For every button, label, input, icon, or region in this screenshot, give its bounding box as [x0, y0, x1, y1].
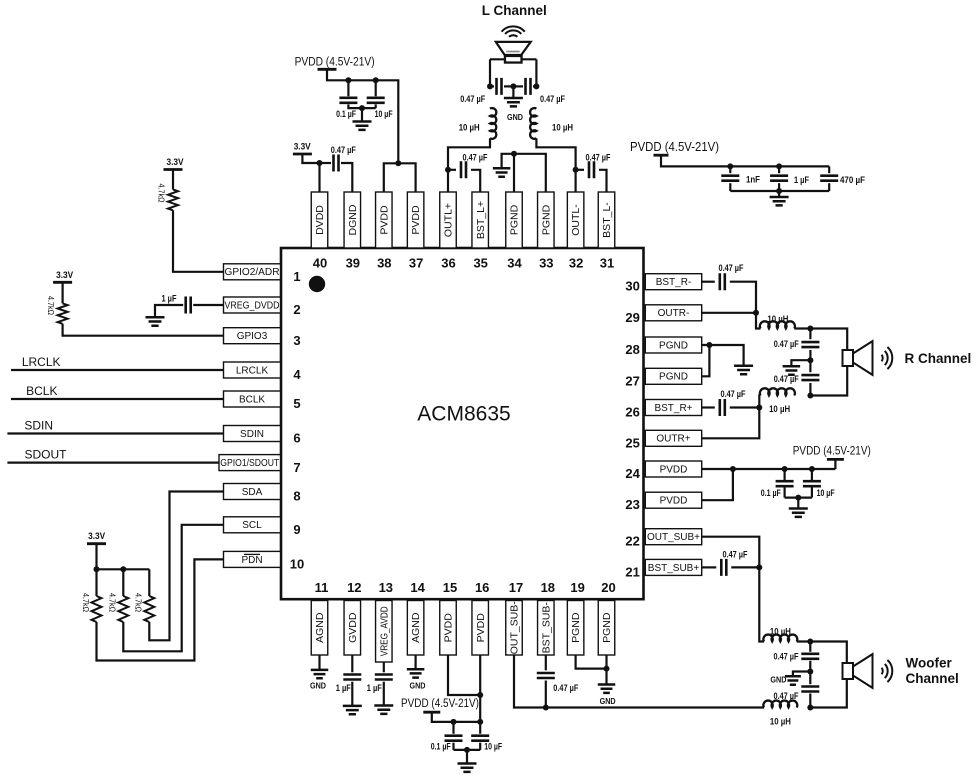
- pin 3 box GPIO3: [224, 328, 281, 344]
- svg-text:22: 22: [625, 534, 639, 549]
- svg-text:10 µH: 10 µH: [770, 717, 791, 727]
- svg-text:4.7kΩ: 4.7kΩ: [108, 593, 118, 612]
- power symbol PVDD top-left: [318, 68, 337, 71]
- svg-text:AGND: AGND: [314, 612, 326, 643]
- wire cap to ground: [383, 682, 385, 706]
- svg-text:10 µH: 10 µH: [552, 123, 573, 133]
- cap join wire: [785, 497, 812, 499]
- svg-text:0.47 µF: 0.47 µF: [774, 691, 799, 701]
- pin 10 box PDN: [224, 551, 281, 567]
- pin 26 box BST_R+: [645, 400, 701, 416]
- svg-text:GPIO2/ADR: GPIO2/ADR: [225, 267, 280, 278]
- svg-text:1: 1: [293, 269, 300, 284]
- junction dot: [345, 77, 351, 83]
- capacitor 0.47uF DVDD-DGND: [334, 155, 339, 172]
- power symbol 3.3V (GPIO3 pull-up): [53, 281, 72, 284]
- svg-text:0.47 µF: 0.47 µF: [331, 145, 356, 155]
- inductor 10uH woofer top: [763, 635, 797, 642]
- svg-text:GPIO3: GPIO3: [237, 331, 268, 342]
- resistor 4.7k (SCL pull-up) leads: [122, 569, 124, 596]
- svg-text:LRCLK: LRCLK: [236, 365, 269, 376]
- wire PVDD bar to rail: [327, 69, 398, 163]
- pin 21 box BST_SUB+: [645, 559, 701, 575]
- svg-text:3: 3: [293, 333, 300, 348]
- pin 30 box BST_R-: [645, 274, 701, 290]
- junction dot: [373, 77, 379, 83]
- wire cap to OUTR- node: [730, 282, 756, 313]
- capacitor 0.47uF L left: [490, 85, 494, 87]
- capacitor 0.47uF R filter top leads: [809, 329, 811, 340]
- wire pin37 PVDD to node: [398, 163, 415, 192]
- wire PVDD bar stem: [834, 459, 836, 469]
- wire cap to pin39 DGND: [341, 163, 352, 192]
- wire pin21 BST_SUB+ to cap: [702, 566, 717, 568]
- svg-text:12: 12: [347, 580, 361, 595]
- svg-text:DVDD: DVDD: [314, 205, 326, 235]
- svg-text:0.47 µF: 0.47 µF: [586, 153, 611, 163]
- svg-text:Woofer: Woofer: [906, 655, 953, 670]
- pin 40 box DVDD: [311, 192, 328, 248]
- svg-text:SCL: SCL: [242, 520, 262, 531]
- power symbol 3.3V (GPIO2 pull-up): [164, 168, 183, 171]
- svg-text:BCLK: BCLK: [26, 384, 57, 398]
- junction dot: [776, 188, 782, 194]
- pin 19 box PGND: [567, 601, 584, 656]
- power symbol PVDD bottom: [423, 711, 440, 714]
- bulk cap bottom rail: [730, 190, 829, 192]
- pin 28 box PGND: [645, 337, 701, 353]
- svg-text:1 µF: 1 µF: [794, 175, 809, 185]
- ground (top-left PVDD caps): [353, 122, 372, 130]
- svg-text:1nF: 1nF: [746, 175, 760, 185]
- wire to ground: [466, 750, 468, 763]
- ground (PGND pins 19-20): [598, 685, 616, 693]
- ground (VREG_DVDD cap): [146, 317, 165, 325]
- capacitor 470uF leads: [828, 166, 830, 173]
- pin 8 box SDA: [224, 484, 281, 500]
- resistor 4.7k pull-up GPIO3: [58, 303, 68, 323]
- junction dot ground node: [359, 105, 365, 111]
- svg-text:PVDD (4.5V-21V): PVDD (4.5V-21V): [295, 57, 375, 69]
- pin 38 box PVDD: [376, 192, 393, 248]
- wire node to speaker minus: [810, 366, 847, 396]
- svg-text:23: 23: [625, 497, 639, 512]
- svg-text:GVDD: GVDD: [347, 612, 359, 643]
- wire pin38 PVDD to node: [384, 163, 399, 192]
- svg-text:PGND: PGND: [659, 340, 688, 351]
- wire SCL pull-up to pin9: [123, 525, 223, 652]
- wire node down to woofer filter: [759, 567, 764, 641]
- pin 31 box BST_L-: [598, 192, 615, 248]
- wire resistor to 3.3V bar: [61, 282, 63, 303]
- junction dot PGND: [511, 151, 517, 157]
- svg-text:38: 38: [377, 255, 391, 270]
- svg-text:3.3V: 3.3V: [294, 142, 312, 153]
- pin 34 box PGND: [506, 192, 523, 248]
- svg-text:SDOUT: SDOUT: [25, 448, 68, 462]
- svg-text:10 µH: 10 µH: [770, 627, 791, 637]
- wire to ground: [361, 108, 363, 121]
- junction dot: [604, 666, 610, 672]
- capacitor 1uF GVDD: [343, 675, 361, 680]
- svg-text:25: 25: [625, 435, 639, 450]
- wire mid node to ground: [793, 672, 810, 677]
- wire pin3 GPIO3 to pull-up resistor: [63, 324, 224, 336]
- inductor 10uH R bottom: [760, 388, 795, 395]
- wire LRCLK to pin4: [11, 369, 224, 371]
- junction dot BST_SUB- cap: [543, 705, 549, 711]
- svg-text:GND: GND: [410, 681, 426, 691]
- svg-text:13: 13: [379, 580, 393, 595]
- svg-text:L Channel: L Channel: [482, 3, 547, 18]
- svg-text:32: 32: [569, 255, 583, 270]
- junction dot: [120, 566, 126, 572]
- svg-text:0.47 µF: 0.47 µF: [774, 652, 799, 662]
- wire pin16 PVDD down to rail: [479, 655, 481, 722]
- svg-text:10 µH: 10 µH: [769, 404, 790, 414]
- svg-text:26: 26: [625, 405, 639, 420]
- capacitor 0.1uF (bottom PVDD) leads: [452, 722, 454, 734]
- pin 29 box OUTR-: [645, 305, 701, 321]
- wire SDA pull-up to pin8: [149, 492, 223, 641]
- cap join wire: [454, 749, 481, 751]
- junction dot woofer mid: [807, 669, 813, 675]
- svg-text:Channel: Channel: [906, 671, 959, 686]
- svg-text:BST_R-: BST_R-: [656, 277, 692, 288]
- svg-text:PGND: PGND: [659, 372, 688, 383]
- pin 6 box SDIN: [224, 426, 281, 442]
- pin-1 marker dot: [309, 276, 325, 292]
- svg-text:PVDD (4.5V-21V): PVDD (4.5V-21V): [630, 140, 719, 154]
- svg-text:16: 16: [475, 580, 489, 595]
- wire cap to rail: [545, 681, 547, 708]
- svg-text:BCLK: BCLK: [239, 394, 265, 405]
- capacitor 0.47uF woofer filter bottom leads: [809, 672, 811, 685]
- svg-text:10: 10: [290, 557, 304, 572]
- svg-text:0.47 µF: 0.47 µF: [540, 94, 565, 104]
- capacitor 10uF (right PVDD) leads: [811, 469, 813, 480]
- svg-text:37: 37: [409, 255, 423, 270]
- svg-text:3.3V: 3.3V: [167, 157, 185, 168]
- junction dot: [727, 163, 733, 169]
- svg-text:4: 4: [293, 367, 301, 382]
- wire to ground: [797, 498, 799, 509]
- capacitor 0.47uF R filter bottom leads: [809, 360, 811, 372]
- wire 3.3V to pin40 DVDD: [302, 154, 319, 192]
- junction dot left: [487, 83, 493, 89]
- pin 39 box DGND: [344, 192, 361, 248]
- svg-text:10 µF: 10 µF: [375, 109, 393, 119]
- svg-text:10 µF: 10 µF: [484, 742, 502, 752]
- svg-text:PVDD (4.5V-21V): PVDD (4.5V-21V): [793, 445, 871, 457]
- wire node to decoupling cap: [320, 162, 332, 164]
- svg-text:31: 31: [600, 255, 614, 270]
- svg-text:10 µH: 10 µH: [767, 314, 788, 324]
- wire to ground: [778, 191, 780, 197]
- svg-text:PDN: PDN: [241, 555, 262, 566]
- svg-text:AGND: AGND: [410, 612, 422, 643]
- pin 37 box PVDD: [407, 192, 424, 248]
- wire speaker right to cap node: [535, 59, 537, 86]
- svg-text:PGND: PGND: [570, 612, 582, 643]
- svg-text:SDIN: SDIN: [240, 429, 264, 440]
- wire pin12 GVDD to cap: [351, 655, 353, 672]
- svg-text:OUT_SUB+: OUT_SUB+: [647, 532, 700, 543]
- capacitor 10uF (PVDD decoupling) top lead: [375, 80, 377, 96]
- inductor 10uH L left: [490, 108, 496, 139]
- svg-text:PVDD: PVDD: [443, 613, 455, 643]
- wire speaker left to cap node: [489, 59, 491, 86]
- wire R- inductor to OUTL- node: [536, 138, 575, 170]
- svg-text:BST_SUB+: BST_SUB+: [648, 563, 700, 574]
- junction dot: [795, 495, 801, 501]
- svg-text:SDA: SDA: [242, 487, 263, 498]
- ground (R filter): [783, 366, 801, 374]
- wire pin19 PGND to pin20 line: [576, 655, 607, 669]
- svg-text:9: 9: [293, 522, 300, 537]
- svg-text:DGND: DGND: [347, 204, 359, 235]
- junction dot BST_R+: [756, 405, 762, 411]
- wire PVDD to bulk cap rail: [661, 155, 829, 166]
- svg-text:28: 28: [625, 342, 639, 357]
- svg-text:470 µF: 470 µF: [840, 175, 865, 185]
- wire cap to node: [731, 566, 759, 568]
- svg-text:PVDD: PVDD: [475, 613, 487, 643]
- junction dot: [782, 466, 788, 472]
- svg-text:10 µH: 10 µH: [459, 123, 480, 133]
- svg-text:VREG_AVDD: VREG_AVDD: [378, 606, 390, 656]
- capacitor 0.1uF (PVDD decoupling) top lead: [347, 80, 349, 96]
- junction dot R speaker +: [807, 326, 813, 332]
- wire center node to ground: [512, 86, 514, 98]
- junction dot PVDD pins node: [395, 160, 401, 166]
- svg-text:36: 36: [441, 255, 455, 270]
- svg-text:0.1 µF: 0.1 µF: [336, 109, 356, 119]
- svg-text:27: 27: [625, 373, 639, 388]
- ground (woofer filter): [785, 676, 801, 684]
- svg-text:4.7kΩ: 4.7kΩ: [46, 296, 56, 315]
- capacitor 0.47uF bootstrap L+: [448, 169, 456, 171]
- wire cap to node: [730, 406, 760, 408]
- capacitor 0.47uF woofer filter top leads: [809, 642, 811, 652]
- inductor 10uH L right: [530, 108, 536, 139]
- junction dot R filter mid: [807, 357, 813, 363]
- ground (PGND top): [493, 168, 511, 176]
- wire pin18 BST_SUB- to cap: [545, 655, 547, 670]
- svg-text:OUTL-: OUTL-: [570, 204, 582, 236]
- junction dot SUB+: [756, 564, 762, 570]
- svg-text:PVDD (4.5V-21V): PVDD (4.5V-21V): [401, 698, 479, 710]
- wire PDN pull-up to pin10: [97, 559, 224, 660]
- svg-text:10 µF: 10 µF: [817, 488, 835, 498]
- svg-text:OUTR-: OUTR-: [658, 308, 690, 319]
- wire pin27 PGND to node: [702, 345, 710, 376]
- pin 11 box AGND: [311, 601, 328, 656]
- svg-text:VREG_DVDD: VREG_DVDD: [225, 300, 280, 311]
- capacitor 0.1uF bottom lead: [348, 104, 375, 108]
- wire pin1 GPIO2/ADR to pull-up resistor: [173, 210, 224, 271]
- svg-text:GND: GND: [310, 681, 326, 691]
- speaker R channel: [843, 350, 854, 366]
- junction dot node DVDD: [317, 160, 323, 166]
- junction dot right: [533, 83, 539, 89]
- capacitor 10uF bottom lead: [375, 104, 377, 108]
- pull-up rail: [97, 568, 150, 570]
- wire pin23 PVDD to rail: [702, 469, 733, 500]
- svg-text:4.7kΩ: 4.7kΩ: [81, 593, 91, 612]
- junction dot woofer +: [807, 639, 813, 645]
- junction dot woofer -: [807, 705, 813, 711]
- junction dot: [94, 566, 100, 572]
- inductor 10uH R top: [760, 321, 795, 328]
- wire dot to pin34 PGND: [513, 154, 515, 192]
- pin 20 box PGND: [598, 601, 615, 656]
- wire speaker loop top: [490, 58, 536, 60]
- svg-text:0.47 µF: 0.47 µF: [553, 683, 578, 693]
- wire OUT_SUB- rail to woofer bottom inductor: [514, 655, 764, 708]
- capacitor 1nF leads: [729, 166, 731, 173]
- svg-text:5: 5: [293, 396, 300, 411]
- pin 2 box VREG_DVDD: [224, 297, 281, 313]
- resistor 4.7k pull-up GPIO2/ADR: [168, 190, 178, 211]
- pin 5 box BCLK: [224, 391, 281, 407]
- junction dot: [477, 719, 483, 725]
- svg-text:PVDD: PVDD: [660, 496, 688, 507]
- pin 16 box PVDD: [472, 601, 489, 656]
- svg-text:20: 20: [601, 580, 615, 595]
- power symbol PVDD top-right: [654, 154, 669, 157]
- capacitor 10uF (bottom PVDD) leads: [479, 722, 481, 734]
- ground (AGND pin14): [407, 669, 425, 677]
- svg-text:33: 33: [539, 255, 553, 270]
- wire node down to filter: [756, 313, 761, 329]
- ground (L channel filter): [504, 98, 523, 106]
- junction dot: [477, 692, 483, 698]
- junction dot OUTL+: [445, 167, 451, 173]
- svg-text:R Channel: R Channel: [905, 351, 972, 366]
- junction dot: [776, 163, 782, 169]
- pin 35 box BST_L+: [472, 192, 489, 248]
- svg-text:6: 6: [293, 431, 300, 446]
- svg-text:19: 19: [570, 580, 584, 595]
- pin 33 box PGND: [538, 192, 555, 248]
- power symbol 3.3V (DVDD): [293, 153, 312, 156]
- svg-text:OUTL+: OUTL+: [443, 203, 455, 237]
- svg-text:40: 40: [313, 255, 327, 270]
- svg-text:0.47 µF: 0.47 µF: [774, 339, 799, 349]
- wire pin11 AGND to ground: [318, 655, 320, 670]
- resistor 4.7k (SDA pull-up) leads: [148, 569, 150, 596]
- svg-text:3.3V: 3.3V: [88, 531, 106, 542]
- svg-text:PGND: PGND: [540, 204, 552, 235]
- wire resistor to 3.3V bar: [172, 170, 174, 190]
- pin 14 box AGND: [407, 601, 424, 656]
- svg-text:0.47 µF: 0.47 µF: [719, 263, 744, 273]
- svg-text:2: 2: [293, 302, 300, 317]
- wire pin20 PGND to ground: [605, 655, 607, 684]
- svg-text:1 µF: 1 µF: [162, 294, 177, 304]
- svg-text:GPIO1/SDOUT: GPIO1/SDOUT: [220, 458, 279, 469]
- svg-text:0.47 µF: 0.47 µF: [721, 389, 746, 399]
- IC U1 ACM8635 body: [281, 248, 644, 599]
- svg-text:PVDD: PVDD: [378, 205, 390, 235]
- svg-text:30: 30: [625, 279, 639, 294]
- svg-text:0.47 µF: 0.47 µF: [774, 374, 799, 384]
- ground (right PVDD caps): [789, 509, 808, 517]
- svg-text:11: 11: [315, 580, 329, 595]
- svg-text:0.1 µF: 0.1 µF: [431, 742, 451, 752]
- junction dot OUTL-: [573, 167, 579, 173]
- speaker Woofer channel: [843, 663, 854, 679]
- pin 15 box PVDD: [440, 601, 457, 656]
- wire pin28 PGND: [702, 345, 744, 366]
- wire PGND pins to ground: [502, 154, 546, 192]
- svg-text:1 µF: 1 µF: [336, 683, 351, 693]
- wire BCLK to pin5: [11, 398, 224, 400]
- wire pin15 PVDD to pin16 line: [448, 655, 480, 695]
- svg-text:PVDD: PVDD: [410, 205, 422, 235]
- ground (R PGND): [734, 366, 753, 374]
- capacitor 1uF leads: [778, 166, 780, 173]
- ground (GVDD cap): [343, 706, 362, 714]
- svg-text:7: 7: [293, 460, 300, 475]
- svg-text:OUTR+: OUTR+: [656, 434, 690, 445]
- pin 23 box PVDD: [645, 492, 701, 508]
- wire PVDD bar to rail: [432, 712, 480, 722]
- svg-text:3.3V: 3.3V: [56, 270, 74, 281]
- pin 12 box GVDD: [344, 601, 361, 656]
- svg-text:BST_L-: BST_L-: [601, 202, 613, 238]
- svg-text:1 µF: 1 µF: [367, 683, 382, 693]
- pin 32 box OUTL-: [567, 192, 584, 248]
- pin 4 box LRCLK: [224, 362, 281, 378]
- svg-text:BST_L+: BST_L+: [475, 201, 487, 239]
- pin 13 box VREG_AVDD: [376, 601, 393, 663]
- speaker L channel: [509, 35, 517, 37]
- wire SDOUT to pin7: [7, 462, 219, 464]
- ground (bulk caps): [770, 197, 789, 205]
- svg-text:PGND: PGND: [601, 612, 613, 643]
- svg-text:GND: GND: [770, 675, 786, 685]
- svg-text:SDIN: SDIN: [24, 419, 53, 433]
- svg-text:ACM8635: ACM8635: [417, 403, 510, 426]
- pin 36 box OUTL+: [440, 192, 457, 248]
- wire pin22 OUT_SUB+ to node: [702, 537, 760, 568]
- ground (VREG_AVDD cap): [374, 706, 393, 714]
- wire pin2 VREG_DVDD to capacitor: [193, 304, 223, 306]
- wire inductor to woofer + node: [797, 642, 847, 664]
- wire pin29 OUTR-: [702, 312, 756, 314]
- svg-text:34: 34: [507, 255, 522, 270]
- svg-text:24: 24: [625, 466, 640, 481]
- capacitor 0.47uF bootstrap L-: [576, 169, 584, 171]
- svg-text:OUT_SUB-: OUT_SUB-: [509, 601, 521, 655]
- pin 9 box SCL: [224, 517, 281, 533]
- wire 3.3V to pull-up rail: [95, 544, 97, 570]
- svg-text:GND: GND: [507, 112, 523, 122]
- capacitor 0.47uF bootstrap R+: [720, 399, 725, 416]
- wire pin30 BST_R- to cap: [702, 281, 715, 283]
- ground (bottom PVDD caps): [458, 764, 477, 772]
- svg-text:29: 29: [625, 310, 639, 325]
- junction dot PGND: [706, 342, 712, 348]
- svg-text:BST_SUB-: BST_SUB-: [540, 602, 552, 654]
- wire pin26 BST_R+ to cap: [702, 406, 715, 408]
- wire pin24 PVDD rail: [702, 468, 836, 470]
- wire pin14 AGND to ground: [415, 655, 417, 669]
- svg-text:18: 18: [541, 580, 555, 595]
- capacitor 1uF VREG_DVDD: [186, 297, 191, 314]
